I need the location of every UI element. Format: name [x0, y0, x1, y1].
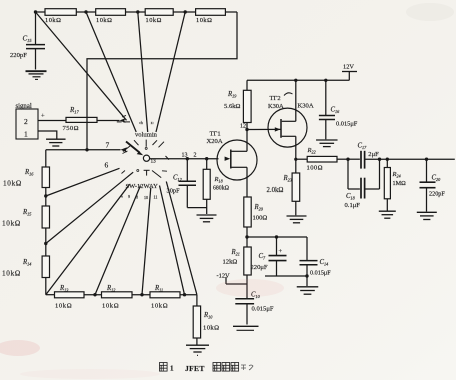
wire: left column seg3	[45, 228, 47, 256]
value 220pF (C15)	[10, 52, 27, 59]
ground (below C16)	[316, 140, 338, 147]
designator R18	[214, 176, 223, 184]
svg-text:«: «	[121, 194, 123, 199]
svg-text:10kΩ: 10kΩ	[203, 325, 219, 332]
junction C20 tap	[425, 158, 428, 161]
supply +12V stub	[342, 72, 357, 81]
svg-text:signal: signal	[16, 103, 32, 110]
resistor R12 10k (bottom row middle)	[102, 292, 133, 298]
wire: bias node to C14 branch	[247, 235, 307, 238]
designator R20	[254, 204, 264, 212]
resistor R2 10k (top row)	[96, 9, 126, 16]
plus polarity mark	[41, 113, 45, 120]
capacitor C7 220uF electrolytic	[269, 237, 287, 276]
svg-text:10kΩ: 10kΩ	[55, 303, 72, 310]
fan wire L: switch to bottom rail right end	[166, 182, 197, 295]
label 2 (net)	[194, 153, 197, 159]
fan wire C: junction R2-R3 to switch	[138, 12, 148, 132]
wire: C12 bottom to R18 bottom	[187, 207, 206, 209]
resistor R14 10k (left column bottom)	[42, 256, 49, 278]
wire: right loop from top rail down-left to node 7 rail	[87, 12, 237, 150]
fan wire I: switch to bottom rail junction 1	[95, 186, 141, 295]
wire: R20 to node at y237	[246, 227, 248, 247]
svg-text:2: 2	[194, 153, 197, 159]
svg-text:10kΩ: 10kΩ	[2, 220, 21, 228]
value 680kΩ (R18)	[213, 186, 230, 192]
junction on left column (node 5)	[44, 242, 47, 245]
svg-text:30pF: 30pF	[167, 188, 181, 195]
svg-text:2: 2	[24, 117, 28, 126]
svg-text:1MΩ: 1MΩ	[393, 180, 407, 187]
value 10kΩ (R2)	[96, 17, 112, 24]
svg-text:12kΩ: 12kΩ	[223, 259, 238, 266]
designator C14	[320, 259, 329, 267]
value 10kΩ (R13)	[55, 303, 72, 310]
svg-text:-12V: -12V	[217, 273, 231, 280]
svg-text:100Ω: 100Ω	[253, 215, 268, 222]
supply -12V stub	[217, 273, 248, 285]
wire: R17 to switch input contact	[97, 120, 120, 122]
resistor R19 5.6k (TG1 drain load)	[243, 80, 251, 129]
label 12 (drain node)	[240, 124, 246, 130]
resistor R10 10k (bottom right vertical)	[193, 306, 200, 338]
wire: R10 to ground	[196, 338, 198, 345]
contact tick on wiper wire	[166, 156, 170, 160]
svg-text:TΓ2: TΓ2	[270, 95, 281, 102]
svg-text:10kΩ: 10kΩ	[2, 270, 21, 278]
svg-text:0.015μF: 0.015μF	[336, 121, 358, 128]
pin 2 (signal)	[24, 117, 28, 126]
designator R23	[283, 175, 292, 183]
ground (below R10)	[186, 345, 209, 355]
resistor R11 10k (bottom row right)	[150, 292, 180, 298]
value 10kΩ (R16)	[3, 180, 22, 188]
switch terminal tiny marks (top)	[139, 121, 154, 125]
designator R24	[392, 171, 401, 179]
svg-text:10kΩ: 10kΩ	[45, 17, 61, 24]
wire: left column top segment	[45, 150, 47, 167]
designator R19	[227, 91, 237, 99]
resistor R24 1M (output load)	[384, 159, 390, 210]
svg-text:12: 12	[240, 124, 246, 130]
value 10kΩ (R10)	[203, 325, 219, 332]
svg-text:7: 7	[106, 141, 110, 150]
scan stains (decorative)	[0, 340, 40, 356]
resistor R1 10k (top row)	[45, 9, 76, 16]
designator R13	[59, 285, 68, 293]
designator R10	[203, 312, 213, 320]
wire: wiper output to TG1 gate	[150, 158, 219, 160]
label X20A	[207, 138, 223, 145]
designator C15	[23, 35, 33, 44]
value 2.0kΩ (R23)	[267, 187, 284, 194]
ground (signal return)	[46, 139, 66, 146]
pin arc mark above TG2	[284, 93, 293, 96]
value 10kΩ (R11)	[151, 303, 168, 310]
fan wire D: junction R3-R4 to switch	[156, 12, 185, 132]
junction TG2 source node	[294, 158, 297, 161]
caption: fig.1 JFET schematic title	[160, 363, 254, 373]
svg-text:9: 9	[128, 194, 130, 199]
transistor TG1 X20A (JFET)	[217, 140, 257, 180]
wire: TG1 source down to R20	[246, 167, 248, 197]
contact arrow at node7 wire end	[121, 147, 128, 153]
junction source-bias node	[245, 235, 248, 238]
svg-text:10: 10	[144, 195, 148, 200]
svg-text:10kΩ: 10kΩ	[146, 17, 162, 24]
label TG2	[270, 95, 281, 102]
svg-text:JFET: JFET	[185, 364, 205, 373]
svg-text:1: 1	[24, 130, 28, 139]
value 10kΩ (R1)	[45, 17, 61, 24]
fan wire A: top rail left end to switch	[36, 12, 127, 120]
svg-text:6: 6	[105, 161, 109, 170]
designator C18	[346, 193, 356, 201]
signal source box	[16, 109, 38, 139]
svg-text:220pF: 220pF	[10, 52, 27, 59]
value 750Ω (R17)	[63, 125, 79, 132]
capacitor C12 30pF	[179, 159, 197, 208]
svg-text:+: +	[279, 248, 283, 255]
wire: left column to bottom rail corner	[45, 278, 47, 295]
wire: TG2 source down to output node	[295, 136, 297, 159]
wire: bottom rail right end drop	[196, 295, 198, 306]
resistor R17 750 ohm (input series)	[66, 117, 97, 122]
capacitor C18 0.1uF (parallel coupling)	[348, 159, 380, 198]
label K30A (right)	[298, 103, 314, 110]
designator R22	[307, 147, 316, 155]
resistor R3 10k (top row)	[145, 9, 173, 16]
resistor R13 10k (bottom row left)	[55, 292, 85, 298]
svg-text:12V: 12V	[343, 64, 354, 71]
wire: TG1 drain to TG2 gate	[247, 128, 281, 130]
value 5.6kΩ (R19)	[224, 103, 241, 110]
svg-text:220μF: 220μF	[251, 264, 268, 271]
value 10kΩ (R12)	[102, 303, 119, 310]
svg-text:0.015μF: 0.015μF	[310, 270, 331, 277]
junction dots top rail	[34, 10, 187, 13]
svg-text:X20A: X20A	[207, 138, 223, 145]
label 7	[106, 141, 110, 150]
label SW-12WAY	[126, 183, 159, 190]
designator R21	[231, 249, 240, 257]
designator C20	[432, 174, 442, 182]
label signal	[16, 103, 32, 110]
svg-text:10kΩ: 10kΩ	[151, 303, 168, 310]
value 220pF (C20)	[429, 191, 445, 198]
label K30A (left)	[268, 103, 284, 110]
resistor R15 10k (left column middle)	[42, 206, 49, 228]
designator C10	[251, 292, 261, 300]
svg-text:SW-12WAY: SW-12WAY	[126, 183, 159, 190]
designator C16	[331, 107, 341, 115]
contact foot bars at A / input	[117, 121, 130, 123]
junction at x87 on node 7 rail	[85, 148, 88, 151]
fan wire F (pos 6): switch to left column node	[46, 168, 120, 196]
wire: signal pin1 to ground	[38, 131, 57, 139]
wire: signal pin2 to R17	[38, 120, 66, 122]
svg-text:11: 11	[154, 194, 158, 199]
svg-text:0.015μF: 0.015μF	[252, 306, 274, 313]
value 220uF (C7)	[251, 264, 268, 271]
svg-text:+: +	[41, 113, 45, 120]
label 12V	[343, 64, 354, 71]
fan wire J: switch to bottom rail junction 2	[142, 188, 151, 295]
capacitor C20 220pF (output filter)	[420, 159, 436, 211]
capacitor C16 0.015uF (supply bypass)	[319, 80, 335, 139]
junction dots bottom rail	[93, 293, 186, 296]
svg-text:10kΩ: 10kΩ	[196, 17, 212, 24]
fan wire G: switch to left column node 5	[46, 172, 133, 243]
ground (below R23)	[287, 216, 307, 223]
capacitor C10 0.015uF (to -12V)	[235, 299, 254, 325]
junction R24 tap	[386, 158, 389, 161]
svg-text:100Ω: 100Ω	[307, 165, 323, 172]
resistor R23 2.0k (TG2 source bias)	[292, 159, 300, 215]
designator C17	[358, 143, 368, 151]
wire: +12V rail	[247, 79, 349, 81]
transistor TG2 K30A (JFET)	[268, 108, 307, 147]
designator R11	[154, 285, 163, 293]
value 12kΩ (R21)	[223, 259, 238, 266]
value 0.1uF (C18)	[345, 202, 361, 209]
label 13 (net)	[182, 153, 188, 159]
svg-text:750Ω: 750Ω	[63, 125, 79, 132]
designator R17	[69, 106, 79, 115]
designator R14	[22, 259, 31, 267]
fan wire H: switch to bottom-left corner	[46, 185, 130, 295]
value 10kΩ (R3)	[146, 17, 162, 24]
switch contact strokes (lower arc)	[122, 170, 168, 178]
wire: R21 bottom to C10	[246, 275, 248, 298]
switch wiper arm with arrow	[123, 142, 143, 156]
svg-text:2.0kΩ: 2.0kΩ	[267, 187, 284, 194]
value 10kΩ (R15)	[2, 220, 21, 228]
resistor R21 12k (source bias)	[244, 247, 251, 275]
wire: left column seg2	[45, 188, 47, 207]
svg-text:680kΩ: 680kΩ	[213, 186, 230, 192]
resistor R22 100 ohm (output series)	[296, 156, 348, 162]
ground (below C20)	[417, 212, 437, 219]
ground (below C15)	[26, 71, 47, 79]
value 2uF (C17)	[368, 151, 379, 158]
svg-text:220pF: 220pF	[429, 191, 445, 198]
value 100Ω (R20)	[253, 215, 268, 222]
junction node 6 on left column	[44, 194, 47, 197]
svg-text:ch: ch	[139, 121, 143, 125]
resistor R16 10k (left column top)	[42, 167, 49, 188]
wire: TG1 drain up to node 12	[246, 130, 248, 152]
value 100Ω (R22)	[307, 165, 323, 172]
svg-text:TΓ1: TΓ1	[210, 131, 221, 138]
svg-text:K30A: K30A	[268, 103, 284, 110]
ground (below R24)	[379, 211, 396, 218]
capacitor C14 0.015uF (bias bypass)	[300, 237, 318, 286]
junction TG1 drain node	[245, 128, 248, 131]
wire: TG2 drain to +12V rail	[295, 80, 297, 121]
value 10kΩ (R4)	[196, 17, 212, 24]
value 0.015uF (C10)	[252, 306, 274, 313]
contact arrow at R17 wire end	[120, 115, 127, 123]
value 30pF (C12)	[167, 188, 181, 195]
fan wire K: switch to bottom rail junction 3	[160, 186, 185, 295]
termination bars below C10	[233, 326, 259, 330]
resistor R4 10k (top row)	[196, 9, 226, 16]
wire: C7 bottom rail to C14 branch	[265, 274, 309, 277]
svg-text:volumin: volumin	[135, 132, 158, 139]
switch rotor circle	[143, 155, 149, 161]
value 1MΩ (R24)	[393, 180, 407, 187]
wire: bottom rail	[46, 294, 197, 296]
resistor R20 100 ohm (TG1 source)	[244, 197, 251, 227]
junction output node A	[346, 158, 349, 161]
pin 1 (signal)	[24, 130, 28, 139]
svg-text:K30A: K30A	[298, 103, 314, 110]
switch contact strokes (upper arc)	[134, 140, 164, 150]
junction C16 at rail	[324, 79, 327, 82]
wire: top attenuator rail	[36, 11, 238, 13]
wire: node 7 rail	[46, 149, 121, 151]
svg-text:x:: x:	[151, 121, 154, 125]
label volumin	[135, 132, 158, 139]
switch tiny position numbers	[121, 194, 157, 201]
designator C12	[173, 175, 183, 183]
ground (below C14)	[297, 287, 319, 294]
designator R16	[24, 169, 34, 177]
designator R15	[22, 209, 31, 217]
value 0.015uF (C14)	[310, 270, 331, 277]
label 6	[105, 161, 109, 170]
svg-text:10kΩ: 10kΩ	[96, 17, 112, 24]
svg-text:2μF: 2μF	[368, 151, 379, 158]
label 13 at wiper	[151, 158, 157, 164]
svg-text:10kΩ: 10kΩ	[3, 180, 22, 188]
junction: C12 tap	[186, 157, 189, 160]
svg-text:0.1μF: 0.1μF	[345, 202, 361, 209]
capacitor C17 2uF (output coupling)	[348, 151, 455, 169]
value 0.015uF (C16)	[336, 121, 358, 128]
resistor R18 680k (gate leak)	[203, 159, 210, 214]
svg-text:5.6kΩ: 5.6kΩ	[224, 103, 241, 110]
designator C7	[259, 253, 267, 261]
svg-text:1: 1	[170, 365, 174, 373]
capacitor C15 220pF (input top-left)	[26, 45, 45, 70]
wire: top-left drop to C15	[35, 12, 37, 44]
junction: R18 tap	[205, 157, 208, 160]
fan wire B: junction R1-R2 to switch	[86, 12, 136, 132]
junction TG2 drain at rail	[294, 79, 297, 82]
label TG1	[210, 131, 221, 138]
designator R12	[106, 285, 116, 293]
value 10kΩ (R14)	[2, 270, 21, 278]
svg-text:8: 8	[136, 195, 138, 200]
ground (below R18/C12)	[197, 215, 217, 222]
svg-text:10kΩ: 10kΩ	[102, 303, 119, 310]
junction after C17/C18	[378, 158, 381, 161]
